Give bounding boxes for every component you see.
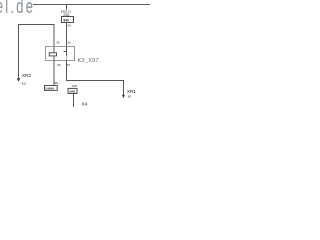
fuse FR1 label (61, 10, 72, 17)
svg-text:X4: X4 (82, 102, 88, 107)
wire from bus to fuse FR1 (66, 5, 68, 17)
svg-text:B1: B1 (128, 94, 132, 98)
svg-text:XR2: XR2 (22, 73, 32, 78)
svg-text:30: 30 (67, 23, 71, 27)
background (0, 0, 150, 107)
relay coil (49, 53, 56, 56)
switch blade (66, 56, 68, 61)
relay switch: pin 30 lead (66, 47, 68, 56)
connector XR2 terminal triangle (17, 78, 21, 82)
connector box on X4 wire (68, 88, 77, 93)
relay K3_X97 box (46, 47, 75, 61)
svg-text:85: 85 (57, 41, 61, 45)
wire X4 to bottom edge (73, 94, 75, 108)
switch fixed contact tick (64, 51, 67, 53)
wire from pin 87 to connector XR1 (67, 61, 124, 96)
watermark text fragment (0, 0, 35, 18)
svg-text:K3_X97: K3_X97 (78, 58, 99, 64)
svg-text:30: 30 (68, 41, 72, 45)
svg-text:B11: B11 (22, 82, 27, 86)
svg-text:540: 540 (63, 18, 69, 22)
svg-text:el.de: el.de (0, 0, 35, 18)
wire from coil pin 86 down to splice box (53, 56, 55, 86)
svg-text:86: 86 (57, 63, 61, 67)
wire from fuse down to relay pin 30 (66, 23, 68, 47)
svg-text:87: 87 (67, 63, 71, 67)
svg-text:B5: B5 (55, 81, 59, 85)
connector XR1 terminal triangle (122, 95, 125, 98)
svg-text:X9B: X9B (69, 89, 76, 93)
wire: top supply bus line (starts right of watermark) (33, 4, 150, 6)
svg-text:43B: 43B (72, 84, 77, 88)
svg-text:24049: 24049 (45, 86, 54, 90)
fuse FR1 box (62, 17, 74, 23)
wire: U-shape from connector XR2 up and over to relay coil pin 85 (19, 25, 55, 79)
splice box at end of coil wire (45, 86, 58, 91)
